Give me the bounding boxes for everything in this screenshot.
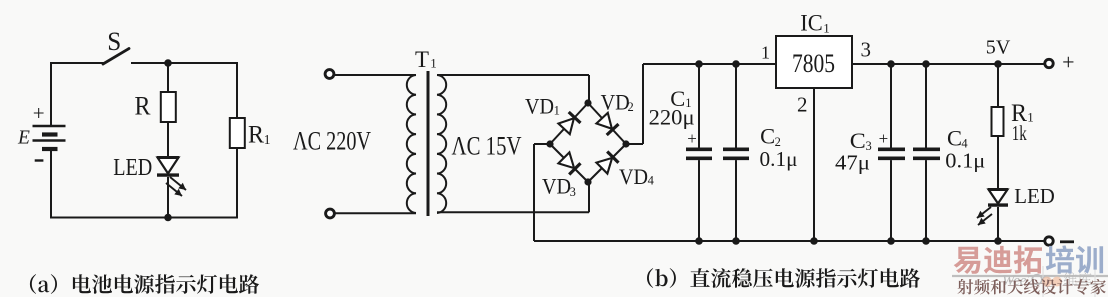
label C1 plus [687,129,697,148]
node: junction top of R branch [164,59,172,67]
capacitor C4 [913,64,940,241]
node: C4 bottom [922,237,930,245]
terminal: output minus [1045,237,1053,245]
wire: bridge right node to top rail [626,64,643,144]
label LED (circuit a) [113,155,152,181]
watermark pei xun [1046,245,1103,273]
node: R1b top [994,60,1002,68]
node: C3 top [887,60,895,68]
svg-text:2: 2 [797,93,808,117]
svg-text:C: C [947,126,962,151]
wire: circuit a right rail top [236,63,238,118]
label C2 [760,124,781,150]
svg-text:E: E [17,128,30,149]
svg-text:1: 1 [264,132,271,147]
label S [107,26,121,56]
label C1 [670,86,691,111]
label output plus [1062,50,1074,75]
label VD4 [619,164,655,189]
label LED (circuit b) [1014,184,1055,208]
wire: AC bottom to primary [335,212,417,214]
label battery minus [35,159,44,161]
node: C2 bottom [732,237,740,245]
diode VD1 [558,112,580,134]
watermark faint logo text [1002,272,1091,289]
wire: circuit a left rail (battery branch) [50,63,52,219]
svg-text:47μ: 47μ [835,151,870,175]
wire: LED to bottom node [167,177,169,219]
svg-text:1k: 1k [1012,121,1027,145]
svg-text:ΛC 220V: ΛC 220V [293,126,371,155]
wire: circuit a top left segment [50,62,104,64]
node: pin2 ground [810,237,818,245]
svg-text:ΛC 15V: ΛC 15V [452,132,522,161]
wire: bridge edge left-top [550,103,588,144]
watermark yi di tuo [954,246,1042,274]
caption (a) [30,274,259,294]
caption (b) [647,268,920,288]
switch S [103,49,129,65]
svg-text:R: R [248,122,264,149]
label pin 1 [761,43,770,63]
wire: bridge edge top-right [588,103,626,144]
op-amp U1 (regulator IC1 box) [776,36,852,88]
svg-text:+: + [1062,50,1074,75]
label C3 [850,128,872,153]
svg-text:3: 3 [861,38,872,62]
watermark gray line [952,266,1108,297]
diode VD3 [558,152,580,174]
svg-text:1: 1 [554,104,560,118]
svg-text:IC: IC [800,11,823,36]
transformer T1 secondary winding [437,75,446,213]
label C1 value [649,105,695,130]
svg-text:C: C [850,128,866,153]
wire: secondary top to bridge [437,75,589,104]
label VD2 [601,90,634,115]
label E [17,128,30,149]
diode VD4 [596,152,618,174]
wire: R to LED [167,122,169,157]
svg-text:4: 4 [648,174,655,188]
wire: top node to R [167,63,169,92]
node: junction bottom of R branch [164,214,172,222]
svg-text:0.1μ: 0.1μ [945,149,985,173]
svg-text:1: 1 [823,21,830,36]
label R [135,91,151,121]
terminal: output plus [1045,59,1053,67]
svg-text:220μ: 220μ [649,105,695,130]
watermark logo dots [1042,277,1062,287]
resistor R1 [230,118,245,148]
svg-text:5V: 5V [986,37,1011,59]
label C3 value [835,151,870,175]
node: bridge left [546,140,553,147]
svg-text:+: + [687,129,697,148]
svg-text:0.1μ: 0.1μ [760,147,798,171]
label C4 [947,126,968,151]
wire: R1 to LED (b) [997,136,999,189]
label T1 [415,47,437,72]
wire: bridge edge left-bottom [550,144,588,182]
label output minus [1060,240,1074,243]
wire: circuit a top right segment [131,62,238,64]
LED D (circuit a) [157,158,186,197]
wire: AC top to primary [334,74,416,76]
wire: LED to ground rail (b) [997,207,999,241]
LED (circuit b) [977,190,1008,226]
svg-text:7805: 7805 [792,48,835,78]
label pin 2 [797,93,808,117]
wire: secondary bottom to bridge [437,181,589,212]
svg-text:C: C [760,124,775,149]
label IC1 [800,11,829,36]
svg-text:LED: LED [113,155,152,181]
svg-text:3: 3 [570,185,576,199]
svg-text:1: 1 [761,43,770,63]
diode VD2 [596,113,618,135]
wire: circuit a right rail bottom [236,148,238,219]
node: bridge right [622,140,629,147]
label C3 plus [879,129,889,148]
svg-text:T: T [415,47,429,72]
node: C4 top [922,60,930,68]
wire: 5V rail to R1 [997,64,999,107]
wire: IC pin 2 to ground [813,88,815,241]
label R1 value 1k [1012,121,1027,145]
label 5V [986,37,1011,59]
node: LED bottom [994,237,1002,245]
svg-text:2: 2 [628,100,634,114]
wire: bridge edge bottom-right [588,144,626,182]
resistor R1 (circuit b) [992,107,1004,136]
label VD1 [525,93,560,118]
battery E [33,126,66,149]
node: C1 top [695,60,703,68]
label AC 15V [452,132,522,161]
node: bridge top [584,99,591,106]
svg-text:VD: VD [619,164,648,189]
label R1 [248,122,271,149]
capacitor C1 [686,64,712,241]
svg-text:VD: VD [525,93,554,118]
label 7805 [792,48,835,78]
svg-text:1: 1 [1027,110,1034,125]
label C2 value [760,147,798,171]
label C4 value [945,149,985,173]
svg-text:R: R [135,91,151,121]
svg-text:VD: VD [542,174,571,199]
terminal: AC input bottom [326,209,335,218]
transformer T1 core [427,71,430,216]
svg-text:1: 1 [430,55,437,70]
node: C2 top [732,60,740,68]
wire: circuit a bottom rail [50,217,238,219]
transformer T1 primary winding [407,75,416,213]
svg-text:+: + [879,129,889,148]
svg-text:LED: LED [1014,184,1055,208]
label AC 220V [293,126,371,155]
wire: IC pin 3 to output (5V rail) [852,63,1048,65]
wire: ground rail [534,240,1048,242]
svg-text:+: + [33,101,45,125]
capacitor C3 [878,64,905,241]
resistor R [161,92,176,122]
node: C3 bottom [887,237,895,245]
node: bridge bottom [584,178,591,185]
wire: top rail to IC pin 1 [643,63,776,65]
capacitor C2 [723,64,749,241]
terminal: AC input top [325,70,334,79]
svg-text:S: S [107,26,121,56]
label battery plus [33,101,45,125]
svg-text:VD: VD [601,90,630,115]
label VD3 [542,174,576,199]
wire: bridge left node to ground rail [534,144,550,241]
label R1 (circuit b) [1011,100,1034,127]
label pin 3 [861,38,872,62]
node: C1 bottom [695,237,703,245]
watermark slogan [958,279,1106,295]
